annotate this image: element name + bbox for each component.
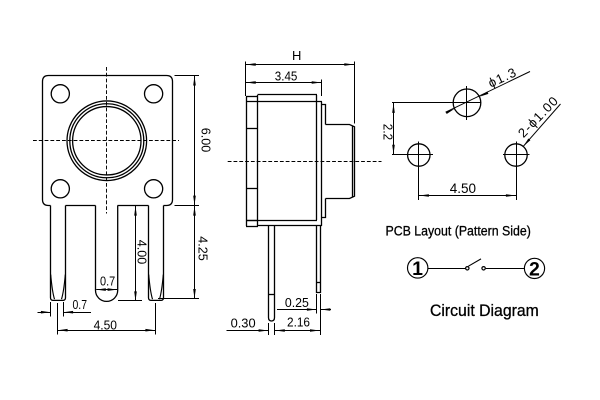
terminal leg right, side view: [317, 226, 321, 293]
terminal circle 2: [524, 258, 544, 278]
switch lever arm: [468, 259, 481, 266]
svg-text:0.25: 0.25: [285, 295, 309, 310]
dim 2.16 between legs: [275, 330, 320, 332]
center locating post with round bottom: [96, 206, 118, 302]
dim line 2.2 vertical: [393, 103, 395, 155]
mounting hole top-right: [145, 85, 163, 103]
vertical centerline front view: [106, 67, 108, 214]
mounting flange strip: [246, 97, 248, 227]
dim line H overall height: [246, 64, 355, 66]
extension lines 0.25 right leg: [316, 294, 318, 314]
wire from terminal 1 to contact: [428, 268, 466, 270]
svg-text:Circuit Diagram: Circuit Diagram: [430, 301, 539, 320]
right leg plating tick: [317, 282, 321, 284]
svg-text:0.30: 0.30: [231, 316, 256, 331]
svg-text:3.45: 3.45: [275, 69, 298, 84]
svg-text:4.25: 4.25: [195, 236, 210, 260]
pcb hole left small: [408, 144, 430, 166]
extension line at post bottom: [118, 300, 142, 302]
button outer circle: [67, 101, 147, 181]
horizontal centerline front view: [33, 140, 179, 142]
right leg inner taper lines: [149, 275, 164, 300]
terminal leg right, front view: [149, 206, 164, 301]
svg-text:0.7: 0.7: [73, 297, 88, 312]
svg-text:2.2: 2.2: [381, 124, 396, 140]
pcb hole big (button locating hole): [453, 89, 481, 117]
dim 0.7 left leg, arrows outside: [38, 312, 51, 314]
svg-text:4.50: 4.50: [94, 317, 117, 332]
dim line 4.25: [194, 206, 196, 299]
switch body side outline: [258, 94, 318, 96]
svg-text:4.50: 4.50: [450, 181, 476, 196]
extension lines 0.30 left leg: [268, 323, 270, 335]
svg-text:0.7: 0.7: [100, 273, 115, 288]
extension line 3.45: [321, 80, 323, 97]
pcb hole right small: [505, 144, 527, 166]
extension lines 0.7 left leg: [50, 302, 52, 317]
dim line 3.45 body width: [246, 82, 322, 84]
svg-text:6.00: 6.00: [198, 128, 213, 153]
push button plunger side view with chamfered face: [326, 125, 355, 199]
crosshair right hole: [516, 142, 518, 201]
svg-text:4.00: 4.00: [135, 240, 150, 264]
terminal leg left, side view: [269, 226, 275, 321]
leader arrow at right hole: [523, 138, 530, 146]
crosshair left hole: [418, 142, 420, 201]
dim 0.7 of center post with outward arrows: [96, 289, 117, 291]
terminal circle 1: [408, 258, 428, 278]
extension lines 4.50 front: [57, 303, 59, 335]
svg-text:2.16: 2.16: [287, 315, 310, 330]
button face inner line: [352, 126, 354, 198]
svg-text:ϕ1.3: ϕ1.3: [486, 64, 520, 90]
leader line 2-phi1.00 to right hole: [523, 104, 560, 146]
switch base square outline with rounded corners: [43, 76, 173, 206]
dim line 6.00: [194, 76, 196, 206]
dim 0.30 left leg width, arrow from left: [227, 330, 269, 332]
collar step right of body: [322, 105, 326, 218]
horizontal centerline side view: [228, 161, 382, 163]
svg-text:2-ϕ1.00: 2-ϕ1.00: [515, 93, 562, 141]
svg-text:1: 1: [412, 258, 423, 280]
button inner circle: [73, 107, 141, 175]
contact pole right: [482, 267, 485, 270]
contact pole left: [466, 267, 469, 270]
mounting hole bottom-right: [145, 180, 163, 198]
leader line phi1.3 through big hole: [446, 72, 530, 113]
leader arrow upper-right of big hole: [479, 92, 488, 97]
button middle circle: [70, 104, 144, 178]
mounting hole bottom-left: [51, 180, 69, 198]
wire from contact to terminal 2: [486, 268, 525, 270]
dim line 4.50 front: [58, 330, 156, 332]
leader arrow lower-left of big hole: [446, 109, 455, 114]
svg-text:H: H: [292, 48, 301, 63]
flange tab division lines: [246, 128, 257, 130]
dim line 4.00 center post depth: [135, 206, 137, 301]
terminal leg left, front view: [51, 206, 66, 301]
dim 0.25 right leg width: [277, 309, 317, 311]
extension lines for 6.00 and 4.25 dims: [175, 75, 200, 77]
extension lines for H dim: [245, 62, 247, 97]
svg-text:2: 2: [529, 259, 540, 281]
dim line 4.50 pcb: [419, 195, 516, 197]
left leg inner taper lines: [51, 275, 66, 300]
crosshair big hole: [466, 86, 468, 120]
mounting hole top-left: [51, 85, 69, 103]
left leg plating tick: [269, 294, 275, 296]
svg-text:PCB Layout (Pattern Side): PCB Layout (Pattern Side): [386, 223, 531, 239]
